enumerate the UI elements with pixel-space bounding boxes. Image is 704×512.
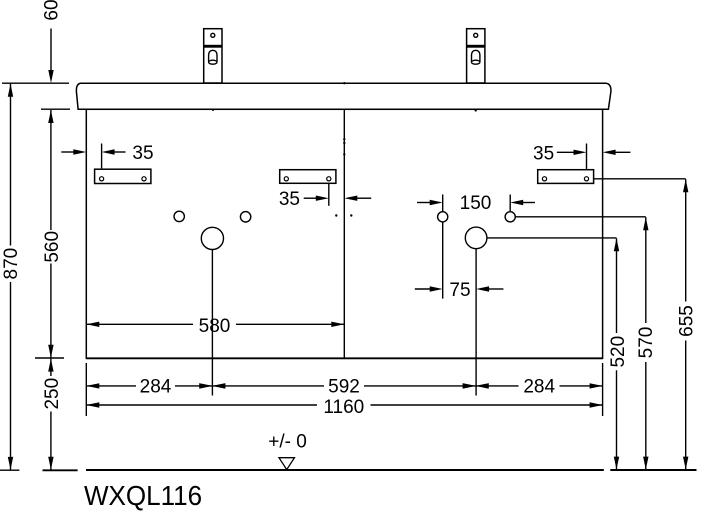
svg-text:35: 35	[533, 143, 554, 164]
svg-text:520: 520	[608, 336, 629, 368]
svg-text:1160: 1160	[323, 397, 364, 418]
svg-text:655: 655	[677, 305, 698, 337]
svg-text:570: 570	[636, 327, 657, 359]
svg-text:75: 75	[449, 280, 470, 301]
svg-text:35: 35	[132, 143, 153, 164]
svg-text:592: 592	[328, 376, 360, 397]
svg-text:560: 560	[42, 231, 63, 263]
svg-text:284: 284	[140, 376, 172, 397]
svg-text:35: 35	[279, 189, 300, 210]
svg-text:150: 150	[460, 193, 492, 214]
svg-text:284: 284	[523, 376, 555, 397]
svg-text:WXQL116: WXQL116	[84, 480, 202, 511]
svg-text:870: 870	[1, 248, 22, 280]
svg-text:+/- 0: +/- 0	[268, 432, 307, 453]
svg-text:60: 60	[41, 0, 62, 21]
svg-text:250: 250	[42, 378, 63, 410]
svg-text:580: 580	[199, 316, 231, 337]
